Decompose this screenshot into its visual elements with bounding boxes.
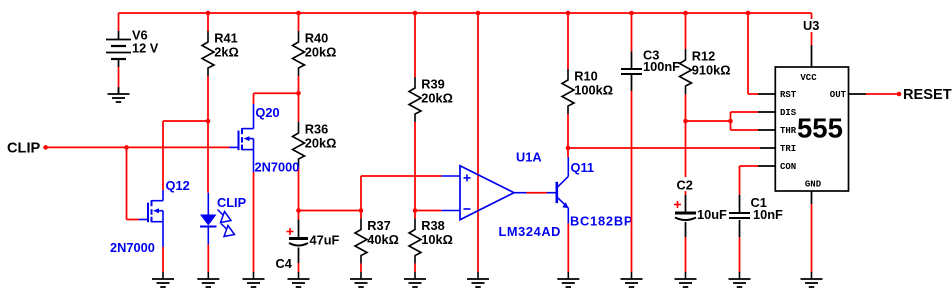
svg-text:R10: R10 xyxy=(574,69,597,84)
svg-text:10nF: 10nF xyxy=(753,207,783,222)
svg-text:TRI: TRI xyxy=(780,144,796,154)
svg-text:GND: GND xyxy=(805,180,822,190)
svg-text:R38: R38 xyxy=(421,218,444,233)
svg-text:OUT: OUT xyxy=(830,90,847,100)
svg-text:R41: R41 xyxy=(214,31,237,46)
svg-text:2kΩ: 2kΩ xyxy=(214,45,239,60)
svg-text:LM324AD: LM324AD xyxy=(499,224,562,239)
svg-text:2N7000: 2N7000 xyxy=(110,240,155,255)
svg-text:Q11: Q11 xyxy=(571,160,594,175)
svg-text:20kΩ: 20kΩ xyxy=(421,91,453,106)
svg-text:12 V: 12 V xyxy=(132,41,159,56)
svg-text:10kΩ: 10kΩ xyxy=(421,232,453,247)
svg-text:R39: R39 xyxy=(421,77,444,92)
svg-text:40kΩ: 40kΩ xyxy=(367,232,399,247)
svg-text:U1A: U1A xyxy=(516,150,542,165)
svg-text:DIS: DIS xyxy=(780,108,797,118)
svg-text:BC182BP: BC182BP xyxy=(570,214,633,229)
svg-text:C2: C2 xyxy=(677,178,693,193)
svg-text:910kΩ: 910kΩ xyxy=(692,63,731,78)
svg-text:100nF: 100nF xyxy=(643,59,680,74)
svg-text:Q12: Q12 xyxy=(166,178,190,193)
svg-text:U3: U3 xyxy=(803,18,819,33)
svg-text:47uF: 47uF xyxy=(310,233,340,248)
svg-text:10uF: 10uF xyxy=(697,207,727,222)
svg-text:R36: R36 xyxy=(305,122,328,137)
svg-text:R37: R37 xyxy=(367,218,390,233)
svg-text:R12: R12 xyxy=(692,49,715,64)
svg-text:CLIP: CLIP xyxy=(217,195,247,210)
svg-text:C4: C4 xyxy=(276,256,293,271)
svg-text:CLIP: CLIP xyxy=(7,141,41,157)
svg-text:RESET: RESET xyxy=(903,87,952,103)
svg-text:20kΩ: 20kΩ xyxy=(305,136,337,151)
svg-text:Q20: Q20 xyxy=(255,105,279,120)
svg-text:THR: THR xyxy=(780,126,797,136)
svg-text:VCC: VCC xyxy=(800,73,817,83)
svg-text:2N7000: 2N7000 xyxy=(255,160,300,175)
svg-text:20kΩ: 20kΩ xyxy=(305,45,337,60)
svg-text:CON: CON xyxy=(780,162,796,172)
svg-text:555: 555 xyxy=(797,113,843,144)
svg-text:R40: R40 xyxy=(305,31,328,46)
svg-text:RST: RST xyxy=(780,90,797,100)
svg-text:100kΩ: 100kΩ xyxy=(574,83,613,98)
